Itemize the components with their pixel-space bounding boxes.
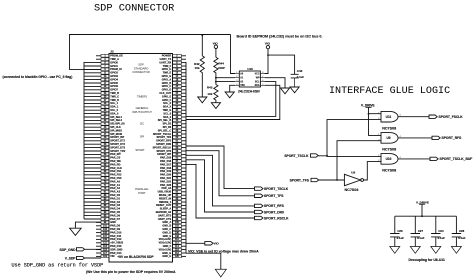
J2 left pin stub wires bbox=[96, 55, 101, 57]
wire J2 to flag SPORT_TFS bbox=[186, 151, 255, 196]
wire J2 to flag SPORT_RSCLK bbox=[186, 164, 255, 218]
AND gate U11 NC7S08 bbox=[381, 111, 398, 122]
svg-text:SPORT_FSCLK: SPORT_FSCLK bbox=[439, 115, 464, 119]
net flag SPORT_TSCLK_BUF bbox=[430, 157, 438, 160]
EEPROM U16 pin numbers bbox=[236, 72, 264, 86]
wire EEPROM SCL to J2 bbox=[186, 82, 276, 117]
svg-text:SPORT_TFS: SPORT_TFS bbox=[264, 194, 284, 198]
svg-text:SPORT: SPORT bbox=[135, 148, 145, 152]
wire EEPROM SDA to J2 bbox=[186, 85, 280, 119]
wire J2 GND pin to ground bbox=[186, 253, 221, 269]
wire SPORT_TFS to inverter U8 and U9 pin2 bbox=[319, 141, 381, 180]
svg-text:VIO: VIO bbox=[214, 242, 220, 246]
svg-text:NC7S08: NC7S08 bbox=[382, 148, 396, 152]
wire SPORT_TSCLK to U10 pin1 bbox=[318, 120, 381, 157]
ground symbol lower-left bbox=[70, 228, 82, 235]
junction SPORT_TFS bbox=[336, 179, 338, 181]
net flag SPORT_RFS bbox=[432, 136, 440, 139]
svg-text:INTERFACE GLUE LOGIC: INTERFACE GLUE LOGIC bbox=[329, 86, 450, 97]
ground symbol below C43 bbox=[290, 87, 299, 93]
wire U11 output to flag SPORT_FSCLK bbox=[398, 116, 429, 118]
svg-text:DNP: DNP bbox=[218, 66, 224, 70]
svg-text:V_DRIVE: V_DRIVE bbox=[416, 200, 429, 204]
svg-text:NC7S08: NC7S08 bbox=[382, 126, 396, 130]
svg-text:I2C: I2C bbox=[140, 122, 144, 126]
ground symbol below R42 bbox=[198, 97, 207, 103]
svg-text:R44: R44 bbox=[218, 61, 224, 65]
net flag SPORT_RSCLK bbox=[254, 216, 263, 219]
junction R42 top net bbox=[201, 35, 203, 37]
wire J2 ground pin to left ground bbox=[75, 222, 101, 228]
svg-text:U8: U8 bbox=[351, 170, 355, 174]
svg-text:SDP CONNECTOR: SDP CONNECTOR bbox=[94, 3, 174, 15]
U10 pin numbers bbox=[378, 155, 401, 162]
J2 right pin number boxes bbox=[173, 54, 182, 57]
wire V_SDP flag to J2 bbox=[85, 257, 102, 259]
svg-text:CONNECTOR: CONNECTOR bbox=[132, 70, 149, 74]
AND gate U9 NC7S08 bbox=[381, 133, 398, 144]
wire J2 to flag SPORT_RFS bbox=[186, 155, 255, 206]
junction V_DRIVE bbox=[368, 113, 370, 115]
wire VCC node to C43 bbox=[268, 55, 295, 74]
svg-text:GND_H: GND_H bbox=[162, 255, 171, 258]
wire V_DRIVE decoupling bus bbox=[395, 215, 457, 217]
EEPROM U16 pin names bbox=[240, 72, 260, 87]
svg-text:VCC: VCC bbox=[255, 73, 260, 75]
EEPROM U16 body bbox=[239, 71, 260, 87]
svg-text:120: 120 bbox=[175, 256, 180, 258]
svg-text:0.1uF: 0.1uF bbox=[397, 236, 405, 240]
svg-text:NC7S04: NC7S04 bbox=[345, 188, 360, 192]
svg-text:C43: C43 bbox=[297, 69, 303, 73]
wire J2 VIO pin to flag bbox=[186, 242, 205, 244]
wire node to EEPROM A2 bbox=[216, 81, 235, 83]
svg-text:PORT: PORT bbox=[138, 191, 146, 195]
svg-text:R43: R43 bbox=[207, 85, 213, 89]
svg-text:SPORT_RSCLK: SPORT_RSCLK bbox=[264, 216, 289, 220]
ground symbol below C26 bbox=[390, 247, 400, 254]
wire EEPROM WP to ground bbox=[265, 78, 285, 88]
svg-text:TIMERS: TIMERS bbox=[137, 95, 147, 99]
svg-text:SPORT_RFS: SPORT_RFS bbox=[442, 136, 463, 140]
svg-text:GENERAL: GENERAL bbox=[136, 106, 149, 110]
svg-text:U10: U10 bbox=[386, 157, 392, 161]
svg-text:C27: C27 bbox=[418, 229, 424, 233]
svg-text:+5V on BLACKFIN SDP: +5V on BLACKFIN SDP bbox=[117, 255, 154, 259]
svg-text:SDA: SDA bbox=[255, 84, 260, 87]
svg-text:106: 106 bbox=[175, 232, 180, 234]
capacitor C28 0.1uF bbox=[452, 216, 461, 246]
svg-text:102: 102 bbox=[175, 226, 180, 228]
svg-text:VIN: VIN bbox=[110, 255, 114, 258]
wire EEPROM VSS to ground bbox=[230, 85, 235, 92]
net flag SPORT_FSCLK bbox=[429, 115, 437, 118]
svg-text:Decoupling for U8-U11: Decoupling for U8-U11 bbox=[409, 258, 445, 262]
wire U8 output to U10 pin2 bbox=[364, 162, 382, 180]
J2 left ground-bus wire bbox=[83, 62, 85, 219]
svg-text:C28: C28 bbox=[459, 229, 465, 233]
J2 right bus wire bbox=[185, 62, 187, 253]
wire J2 to flag SPORT_DR0 bbox=[186, 160, 255, 212]
svg-text:0.1uF: 0.1uF bbox=[297, 75, 305, 79]
capacitor C27 0.1uF bbox=[411, 216, 420, 246]
svg-text:108: 108 bbox=[175, 236, 180, 238]
junction V_DRIVE bus bbox=[421, 215, 423, 217]
inverter U8 NC7S04 bbox=[344, 174, 363, 185]
svg-text:SDP_GND: SDP_GND bbox=[60, 248, 77, 252]
svg-text:V_SDP: V_SDP bbox=[65, 257, 77, 261]
svg-text:SPI: SPI bbox=[140, 135, 145, 139]
AND gate U10 NC7S08 bbox=[381, 154, 398, 165]
wire R44/R43 node to EEPROM A1 bbox=[216, 77, 235, 79]
svg-text:(connected to blackfin GPIO -: (connected to blackfin GPIO - use PC_5 f… bbox=[3, 75, 73, 79]
ground symbol below J2 bbox=[215, 269, 226, 277]
svg-text:C26: C26 bbox=[397, 229, 403, 233]
ground symbol EEPROM VSS bbox=[225, 92, 234, 98]
svg-text:U16: U16 bbox=[247, 67, 253, 71]
svg-text:104: 104 bbox=[175, 228, 180, 231]
svg-text:SPORT_TSCLK: SPORT_TSCLK bbox=[264, 187, 289, 191]
svg-text:U11: U11 bbox=[386, 115, 392, 119]
svg-text:Board ID EEPROM (24LC32) must: Board ID EEPROM (24LC32) must be on I2C … bbox=[237, 35, 323, 39]
net flag SPORT_TFS bbox=[254, 194, 263, 197]
svg-text:0.1uF: 0.1uF bbox=[417, 236, 425, 240]
junction R44-R43-A1 node bbox=[215, 77, 217, 79]
net flag SPORT_DR0 bbox=[254, 210, 263, 213]
ground symbol below C24 bbox=[431, 247, 441, 254]
svg-text:SPORT_TFS: SPORT_TFS bbox=[290, 178, 310, 182]
wire V_DRIVE to U11 pin1 and U9 pin1 bbox=[369, 114, 382, 136]
svg-text:SPORT_TSCLK_BUF: SPORT_TSCLK_BUF bbox=[440, 157, 473, 161]
resistor R44 bbox=[214, 57, 218, 84]
svg-text:10k: 10k bbox=[207, 92, 212, 96]
svg-text:0.1uF: 0.1uF bbox=[458, 236, 466, 240]
ground symbol EEPROM WP bbox=[280, 88, 289, 94]
wire U9 output to flag SPORT_RFS bbox=[398, 137, 432, 139]
svg-text:0.1uF: 0.1uF bbox=[438, 236, 446, 240]
wire U10 output to flag SPORT_TSCLK_BUF bbox=[398, 158, 430, 160]
svg-text:SDP: SDP bbox=[138, 63, 144, 67]
wire J2 to flag SPORT_TSCLK bbox=[186, 146, 255, 189]
junction SPORT_TSCLK bbox=[326, 155, 328, 157]
svg-text:NC7S08: NC7S08 bbox=[382, 169, 396, 173]
J2 left pin number boxes bbox=[101, 54, 109, 57]
svg-text:Use SDP_GND as return for VSDP: Use SDP_GND as return for VSDP bbox=[12, 263, 104, 269]
svg-text:C24: C24 bbox=[438, 229, 444, 233]
svg-text:U9: U9 bbox=[386, 136, 390, 140]
capacitor C24 0.1uF bbox=[431, 216, 440, 246]
wire top net down to EEPROM A0 bbox=[231, 35, 236, 74]
svg-text:SPORT_DR0: SPORT_DR0 bbox=[264, 210, 284, 214]
svg-text:INPUT/OUTPUT: INPUT/OUTPUT bbox=[132, 110, 152, 114]
ground symbol below C28 bbox=[451, 247, 461, 254]
ground symbol below R43 bbox=[211, 103, 220, 109]
capacitor C43 bbox=[291, 74, 299, 87]
net flag VIO bbox=[205, 242, 213, 245]
U11 pin numbers bbox=[378, 112, 401, 120]
svg-text:VSS: VSS bbox=[240, 85, 245, 87]
resistor R43 bbox=[214, 85, 218, 103]
svg-text:100: 100 bbox=[175, 222, 180, 224]
net flag SPORT_RFS bbox=[254, 204, 263, 207]
svg-text:SPORT_RFS: SPORT_RFS bbox=[264, 204, 285, 208]
svg-text:SPORT_TSCLK: SPORT_TSCLK bbox=[284, 154, 309, 158]
net flag SDP_GND bbox=[77, 248, 85, 251]
J2 right pin stub wires bbox=[181, 55, 186, 57]
capacitor C26 0.1uF bbox=[390, 216, 399, 246]
svg-text:(We Use this pin to power the: (We Use this pin to power the SDP requir… bbox=[86, 270, 176, 274]
net flag V_SDP bbox=[77, 256, 85, 259]
svg-text:J2: J2 bbox=[110, 50, 114, 54]
ground symbol below C27 bbox=[410, 247, 420, 254]
net flag SPORT_TSCLK bbox=[254, 187, 263, 190]
U9 pin numbers bbox=[378, 134, 401, 141]
svg-text:10k: 10k bbox=[195, 66, 200, 70]
EEPROM U16 pin stubs bbox=[235, 74, 265, 86]
svg-text:24LC32A-I/SN: 24LC32A-I/SN bbox=[238, 89, 260, 93]
svg-text:WP: WP bbox=[256, 78, 260, 80]
junction VCC/C43 bbox=[267, 54, 269, 56]
svg-text:STANDARD: STANDARD bbox=[134, 66, 149, 70]
connector J2 body bbox=[109, 54, 173, 263]
wire PC_5 gpio from J2 pin to top I2C net bbox=[70, 35, 231, 70]
svg-text:PARALLEL: PARALLEL bbox=[135, 187, 149, 191]
resistor R42 bbox=[200, 36, 204, 98]
svg-text:SCL: SCL bbox=[255, 81, 260, 83]
wire SDP_GND flag to J2 bbox=[85, 248, 102, 250]
